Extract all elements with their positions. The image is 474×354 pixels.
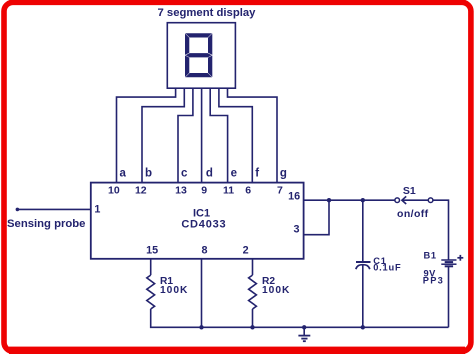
svg-text:1: 1 (94, 204, 100, 216)
svg-text:c: c (181, 167, 188, 179)
svg-text:e: e (231, 167, 237, 179)
svg-text:3: 3 (293, 224, 299, 236)
svg-text:b: b (145, 167, 152, 179)
svg-text:f: f (255, 167, 259, 179)
svg-text:7: 7 (277, 184, 283, 196)
svg-text:S1: S1 (403, 185, 416, 197)
svg-text:6: 6 (245, 184, 251, 196)
svg-text:d: d (206, 167, 213, 179)
svg-text:0.1uF: 0.1uF (373, 263, 401, 273)
svg-text:16: 16 (288, 191, 300, 203)
svg-text:8: 8 (201, 244, 207, 256)
svg-text:CD4033: CD4033 (181, 218, 226, 230)
svg-text:on/off: on/off (397, 208, 429, 220)
svg-text:9: 9 (201, 184, 207, 196)
svg-text:7 segment display: 7 segment display (158, 7, 257, 19)
svg-text:B1: B1 (424, 251, 437, 261)
svg-text:Sensing probe: Sensing probe (7, 218, 85, 230)
svg-text:12: 12 (135, 184, 147, 196)
svg-text:100K: 100K (262, 285, 290, 296)
svg-text:2: 2 (243, 244, 249, 256)
svg-text:PP3: PP3 (423, 275, 444, 285)
svg-text:11: 11 (223, 184, 234, 196)
svg-text:10: 10 (108, 184, 120, 196)
svg-text:g: g (280, 167, 287, 179)
svg-text:15: 15 (146, 244, 158, 256)
svg-text:100K: 100K (160, 285, 188, 296)
svg-text:13: 13 (175, 184, 187, 196)
svg-text:a: a (120, 167, 127, 179)
